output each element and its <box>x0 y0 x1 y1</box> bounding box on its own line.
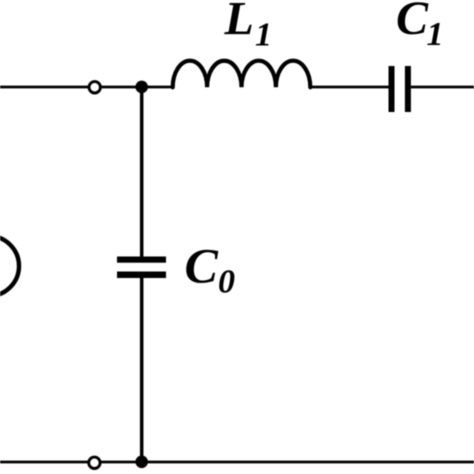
wire bottom rail right segment <box>100 461 474 464</box>
source V (partial circle at left edge) <box>0 236 19 296</box>
inductor L1 <box>173 61 311 88</box>
capacitor C1 right plate <box>405 66 411 112</box>
capacitor C0 top plate <box>117 257 166 263</box>
wire top rail from C1 to right edge <box>411 86 474 89</box>
wire top rail from terminal to inductor <box>101 86 174 89</box>
svg-text:C: C <box>396 0 429 45</box>
capacitor C1 left plate <box>389 66 395 112</box>
node A (top junction dot) <box>135 81 148 94</box>
wire top rail from inductor to C1 <box>310 86 388 89</box>
svg-text:C: C <box>185 238 219 294</box>
wire vertical branch from node A to C0 <box>140 87 144 257</box>
svg-text:L: L <box>224 0 254 46</box>
wire bottom rail left segment <box>0 461 89 464</box>
svg-text:1: 1 <box>427 16 444 53</box>
terminal output (open circle, bottom) <box>89 457 100 468</box>
svg-text:1: 1 <box>255 16 272 53</box>
svg-text:0: 0 <box>218 263 235 300</box>
capacitor C0 bottom plate <box>117 272 166 279</box>
wire vertical branch from C0 to bottom rail <box>140 278 144 463</box>
wire top rail left segment <box>0 86 89 89</box>
node B (bottom junction dot) <box>135 456 148 469</box>
terminal input (open circle, top) <box>89 82 100 93</box>
